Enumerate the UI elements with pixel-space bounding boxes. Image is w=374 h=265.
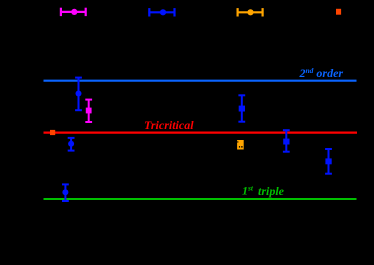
legend entry 1: magenta circle with horizontal error bar — [60, 8, 87, 16]
svg-text:triple: triple — [258, 184, 285, 198]
legend entry 3: orange circle with horizontal error bar — [237, 8, 264, 16]
Tricritical line (red) — [44, 132, 358, 134]
data point A: blue circle with error bar x=78.5 — [75, 78, 82, 111]
data point I: blue square with error bar x=328.5 — [325, 149, 332, 174]
data point C: orange-red square on red line x=52.6 — [50, 130, 55, 135]
data point H: blue square with error bar x=286.3 — [283, 130, 290, 152]
1st triple line (green) — [44, 198, 357, 200]
data point E: blue circle with error bar x=65.4 — [62, 184, 69, 201]
legend entry 2: blue circle with horizontal error bar — [148, 8, 175, 16]
data point D: blue circle with error bar x=71.1 — [68, 138, 75, 151]
2nd order line (blue) — [44, 80, 357, 82]
legend entry 4: orange-red square — [336, 9, 341, 15]
data point G: orange marker group near red line x=240.5 — [237, 140, 244, 150]
svg-text:2nd order: 2nd order — [299, 66, 344, 80]
svg-text:Tricritical: Tricritical — [144, 118, 194, 132]
data point F: blue square with error bar x=241.8 — [238, 95, 245, 121]
data point B: magenta square with error bar x=88.7 — [85, 100, 92, 122]
